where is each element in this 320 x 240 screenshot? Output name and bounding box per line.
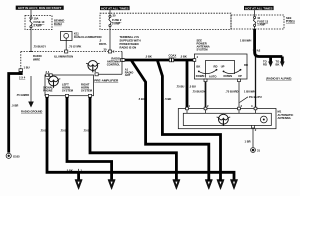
wire: radio ground arrow branch [16, 76, 34, 108]
relay K1 radio illumination [61, 32, 73, 41]
wire: radio ground feed (thick left) [9, 74, 22, 153]
svg-text:.75 BU/GY: .75 BU/GY [33, 45, 46, 49]
amplifier top terminals [46, 70, 53, 76]
wire D1: trunk branch to arrow 4 (thick) [132, 61, 209, 181]
svg-text:5 AMP: 5 AMP [112, 21, 120, 25]
svg-text:FUSES: FUSES [286, 19, 295, 23]
svg-text:30: 30 [113, 14, 116, 18]
wire W3: amp terminal 3 down-right to arrow [83, 97, 176, 181]
svg-text:5 AMP: 5 AMP [34, 23, 42, 27]
junction stub arrow A1 on line [66, 168, 83, 181]
terminal d (radio bottom edge) [95, 69, 99, 76]
radio left dashed edge [20, 52, 22, 69]
antenna M1 outer box [178, 109, 276, 129]
arrow: radio accessory feed 2 [276, 60, 285, 68]
svg-text:.5 BK: .5 BK [66, 168, 73, 172]
svg-text:BK: BK [196, 64, 200, 68]
svg-text:31: 31 [257, 149, 260, 153]
svg-text:.5 BR: .5 BR [12, 104, 19, 108]
svg-text:(RADIO BY ALPINE): (RADIO BY ALPINE) [266, 77, 291, 81]
amplifier pin labels (bottom inside) [43, 83, 93, 93]
wire: antenna control trunk (thick) [122, 55, 194, 62]
svg-text:DOWN: DOWN [224, 74, 233, 78]
svg-text:.75 BU/GN: .75 BU/GN [192, 90, 205, 94]
terminal C on radio top edge [104, 48, 115, 54]
note: radio ground [21, 110, 42, 114]
wire: trunk branch to antenna coax (thick) [176, 60, 196, 109]
connector arrow 3 [173, 180, 180, 190]
label: M1 automatic antenna [278, 110, 294, 121]
svg-text:.75 GY/PK: .75 GY/PK [69, 45, 82, 49]
svg-text:TERMINAL 2 IS: TERMINAL 2 IS [120, 35, 140, 39]
svg-text:1 AMP: 1 AMP [257, 23, 265, 27]
radio right edge [121, 52, 123, 75]
wire: fuse13 feed to antenna terminal 4 [244, 50, 256, 109]
fuse F10 symbol [30, 10, 45, 30]
fuse box F3 (dashed, right) [231, 15, 284, 29]
power feed bar: HOT AT ALL TIMES (right) [244, 6, 274, 10]
antenna mast circle [260, 116, 267, 123]
svg-text:RD: RD [244, 63, 248, 67]
svg-text:DOWN: DOWN [196, 74, 205, 78]
svg-text:BK: BK [276, 63, 280, 67]
svg-text:.5 BK: .5 BK [180, 55, 187, 59]
svg-text:10: 10 [257, 16, 260, 20]
fuse box F2 (dashed, long center) [100, 13, 231, 29]
wire: fuse10 to radio (left drop) [31, 30, 46, 52]
svg-text:1 BU/WH: 1 BU/WH [244, 90, 255, 94]
note: radio by alpine [266, 77, 291, 81]
note: see fuse details (right margin) [286, 16, 295, 23]
wire: switch to antenna terminal 2 [192, 79, 207, 109]
svg-text:HOT AT ALL TIMES: HOT AT ALL TIMES [101, 6, 128, 10]
svg-text:PG BL/PU: PG BL/PU [249, 95, 262, 99]
label: PRE-AMPLIFIER [94, 79, 119, 83]
label: A1 radio antenna cable [125, 68, 134, 78]
radio bottom edge (right part) [97, 73, 123, 75]
power feed bar: HOT AT ALL TIMES (center) [100, 6, 130, 10]
svg-text:.75 BK: .75 BK [83, 129, 91, 133]
svg-text:G105: G105 [13, 155, 20, 159]
svg-text:K11: K11 [74, 32, 79, 36]
svg-text:DASH: DASH [54, 22, 62, 26]
svg-text:POWER WHEN: POWER WHEN [120, 42, 139, 46]
svg-text:RD/YL: RD/YL [99, 42, 107, 46]
label K1 relay [74, 32, 101, 40]
svg-text:ILLUMINATION: ILLUMINATION [54, 55, 73, 59]
svg-text:SYSTEM: SYSTEM [197, 48, 209, 52]
svg-text:.75 BU: .75 BU [176, 85, 184, 89]
svg-text:SYSTEM: SYSTEM [62, 89, 74, 93]
svg-text:COAX: COAX [169, 53, 177, 57]
switch contact arc left [196, 64, 218, 78]
fuse F2 symbol [109, 10, 122, 29]
wire W1: amp terminal 1 to off-page (thick) [40, 97, 234, 181]
wire D2: trunk branch to arrow 5 (thick) [158, 61, 221, 181]
connector arrow 6 [230, 180, 237, 190]
svg-text:SYSTEM: SYSTEM [81, 89, 93, 93]
connector arrow 2 [108, 180, 115, 190]
switch contact arc right [221, 63, 248, 78]
svg-text:10A: 10A [34, 17, 39, 21]
svg-text:1 BU/WH: 1 BU/WH [240, 39, 251, 43]
terminal: radio illumination on top edge [54, 50, 73, 59]
antenna M1 inner box [183, 113, 271, 125]
note: terminal 2 supplied with power when radio on [120, 35, 141, 50]
svg-text:1 BU: 1 BU [24, 65, 30, 69]
svg-text:PRE-AMPLIFIER: PRE-AMPLIFIER [94, 79, 119, 83]
note: see power antenna circuit [197, 39, 210, 52]
connector: coax inline [169, 53, 177, 62]
antenna switch box S1 [193, 54, 247, 79]
arrow: radio accessory feed 1 [263, 60, 273, 68]
fuse box F1 (dashed, left) [25, 16, 52, 30]
wire: antenna ground drop [245, 125, 257, 147]
antenna terminal marks on top edge [186, 104, 257, 114]
svg-text:RADIO IS ON: RADIO IS ON [120, 46, 137, 50]
svg-text:FUSE 13: FUSE 13 [257, 19, 268, 23]
wire W2: amp terminal 2 down-right to arrow [60, 97, 112, 181]
power feed bar: HOT IN ACCY RUN OR START [16, 6, 64, 10]
svg-text:UP: UP [221, 64, 225, 68]
svg-text:FUSE 2: FUSE 2 [112, 18, 122, 22]
svg-text:AUTO: AUTO [209, 74, 217, 78]
svg-text:UP: UP [238, 74, 242, 78]
svg-text:RADIO GROUND: RADIO GROUND [21, 110, 42, 114]
svg-text:RD: RD [263, 63, 267, 67]
wire: fuse2 to radio terminal C [99, 30, 110, 52]
svg-text:.5 BK: .5 BK [165, 97, 172, 101]
svg-text:DASH ILLUMINATION: DASH ILLUMINATION [74, 35, 101, 39]
svg-text:.75 BK: .75 BK [60, 129, 68, 133]
lamp: radio dial illumination bulb [86, 61, 100, 73]
connector arrow 4 [205, 180, 212, 190]
svg-text:PHONE: PHONE [43, 89, 53, 93]
svg-text:ANT: ANT [125, 73, 131, 77]
note: special equipment [19, 76, 26, 80]
svg-text:WIRE: WIRE [33, 58, 40, 62]
svg-text:.75 BU/RD: .75 BU/RD [226, 90, 239, 94]
switch internal link wire [206, 61, 235, 78]
radio U1 dashed top edge [21, 51, 122, 53]
svg-text:.5 BU: .5 BU [138, 97, 145, 101]
connector arrow 1 [75, 180, 82, 190]
connector X1 (radio left) [19, 52, 42, 75]
svg-text:2 X 4: 2 X 4 [19, 76, 26, 80]
ground G2 (antenna) [251, 148, 261, 153]
svg-text:C: C [113, 50, 115, 54]
svg-text:3 4: 3 4 [46, 70, 50, 74]
connector arrow 5 [217, 180, 224, 190]
svg-text:A2: A2 [257, 49, 261, 53]
amplifier bottom terminals [45, 94, 91, 97]
svg-text:RD: RD [214, 64, 218, 68]
svg-text:.75 BK: .75 BK [40, 129, 48, 133]
amplifier U2 box [45, 75, 94, 96]
svg-text:CONTROL: CONTROL [107, 63, 121, 67]
svg-text:1 BR: 1 BR [245, 140, 251, 144]
svg-text:.5 BU: .5 BU [189, 85, 196, 89]
wire: relay to radio illumination terminal [66, 41, 81, 52]
svg-text:SUPPLIED WITH: SUPPLIED WITH [120, 39, 141, 43]
lamp: amplifier indicator bulb [47, 76, 61, 88]
terminal: radio antenna control (right edge) [107, 57, 124, 67]
antenna motor symbol [217, 114, 231, 126]
svg-text:.75 GN/RD: .75 GN/RD [16, 93, 29, 97]
svg-text:.5 BK: .5 BK [145, 55, 152, 59]
label: PG BL/PU callout [240, 95, 262, 103]
svg-text:HOT IN ACCY, RUN OR START: HOT IN ACCY, RUN OR START [18, 6, 61, 10]
note: fuse/relay box label [54, 19, 64, 26]
svg-text:ANTENNA: ANTENNA [278, 116, 291, 120]
wire: fuse13 drop to radio arrows (thick) [240, 29, 282, 62]
fuse F13 symbol [253, 10, 268, 29]
ground G105 [6, 153, 20, 158]
wire: switch to antenna terminal 3 [226, 79, 241, 109]
svg-text:HOT AT ALL TIMES: HOT AT ALL TIMES [245, 6, 272, 10]
svg-text:30: 30 [104, 48, 107, 52]
